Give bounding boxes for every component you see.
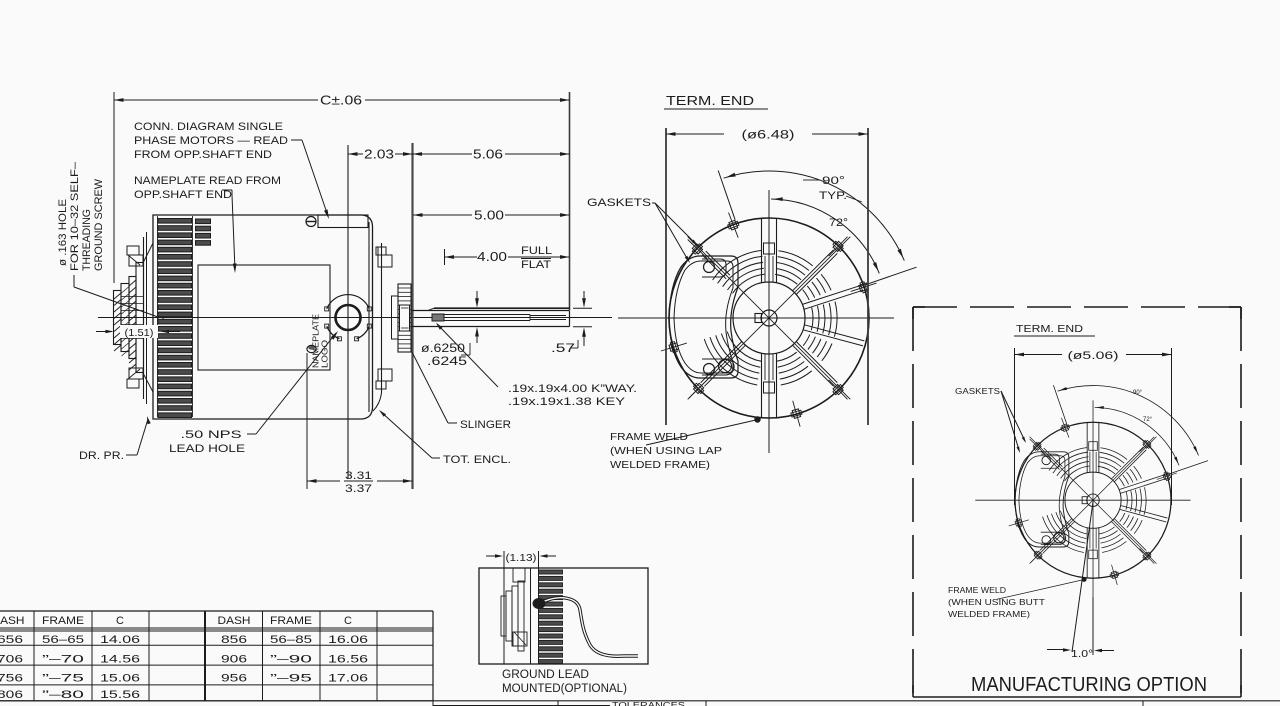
dimension 2.03 [348,153,363,155]
.57 arrows [583,291,585,303]
lead hole circle (.50 NPS) [336,305,361,330]
svg-text:NAMEPLATE READ FROM: NAMEPLATE READ FROM [134,175,281,187]
dia .6250 arrows [476,291,478,303]
3.31 dim left extension [306,353,308,489]
bell curve bottom [373,393,382,411]
svg-text:(ø6.48): (ø6.48) [742,130,795,142]
slinger disc [398,284,411,352]
svg-text:FRAME WELD: FRAME WELD [948,585,1006,595]
mini motor fins [539,570,563,574]
svg-text:ø .163 HOLE: ø .163 HOLE [57,199,69,266]
svg-text:56–65: 56–65 [42,634,84,646]
svg-text:FRAME: FRAME [42,615,84,627]
90 deg dimension arc [724,171,905,261]
svg-text:.19x.19x4.00 K”WAY.: .19x.19x4.00 K”WAY. [508,383,637,395]
rear bell step [381,243,383,393]
3.31/3.37 dimension [307,480,340,482]
svg-text:17.06: 17.06 [328,673,368,685]
(1.51) dimension [120,325,158,338]
svg-text:90°: 90° [822,175,845,187]
body right edge double line [368,222,370,412]
conn box extension line [347,145,349,479]
left bell cone [144,243,154,262]
svg-text:.50 NPS: .50 NPS [181,429,242,441]
svg-text:WELDED FRAME): WELDED FRAME) [610,459,710,471]
svg-text:FRAME WELD: FRAME WELD [610,431,688,443]
svg-text:4.00: 4.00 [477,250,507,264]
svg-text:C±.06: C±.06 [320,94,362,108]
svg-text:5.00: 5.00 [474,209,504,223]
radial extension lines [718,171,735,220]
svg-text:”–95: ”–95 [270,673,312,685]
svg-text:TOT. ENCL.: TOT. ENCL. [443,454,511,466]
slinger hub [392,296,399,339]
svg-text:CONN. DIAGRAM SINGLE: CONN. DIAGRAM SINGLE [134,121,283,133]
dimension 5.06 [413,153,473,155]
conn diagram leader [291,139,302,141]
svg-text:DASH: DASH [218,615,251,627]
svg-text:FLAT: FLAT [521,259,551,271]
dashed box corner stubs [913,306,925,308]
svg-text:TYP.: TYP. [819,190,847,202]
svg-text:C: C [116,615,124,627]
terminal channel top [761,219,763,283]
scaled term end geometry [975,385,1208,605]
gasket clip tabs [727,220,740,231]
motor body outline [153,215,373,419]
svg-text:(WHEN USING LAP: (WHEN USING LAP [610,445,722,457]
svg-text:GASKETS: GASKETS [587,197,651,209]
svg-text:856: 856 [221,634,247,646]
frame weld point and leader [754,416,760,422]
vertical centerline [768,190,770,453]
lead hole broken ring [327,295,370,309]
svg-text:14.06: 14.06 [100,634,140,646]
svg-text:(1.13): (1.13) [506,552,537,564]
bell clip bottom [376,381,386,389]
svg-text:TERM. END: TERM. END [666,94,754,108]
svg-text:GASKETS: GASKETS [955,386,1000,396]
shaft center circle [761,310,777,326]
horizontal centerline [618,317,894,319]
svg-text:72°: 72° [1143,417,1153,423]
1.0 deg dimension [1092,597,1094,655]
svg-text:15.06: 15.06 [100,673,140,685]
svg-text:”–90: ”–90 [270,654,312,666]
ground lead box [479,568,648,664]
dia 5.06 dimension line [1015,354,1063,356]
svg-text:TERM. END: TERM. END [1016,323,1083,335]
svg-text:”–80: ”–80 [42,689,84,701]
hub clips bottom [127,379,139,388]
dash/frame tables [0,610,433,612]
svg-text:THREADING: THREADING [81,209,93,271]
motor face extension line [411,143,413,489]
diagonal centerlines [688,237,851,400]
keyway leader [437,324,498,387]
svg-text:FROM OPP.SHAFT END: FROM OPP.SHAFT END [134,149,272,161]
shaft tip extension line [569,92,571,310]
ground lead wire [545,598,638,656]
shaft [411,310,570,312]
svg-text:706: 706 [0,654,23,666]
svg-text:MOUNTED(OPTIONAL): MOUNTED(OPTIONAL) [502,683,627,695]
drive end hub stack [114,291,122,345]
gasket outline [669,256,738,378]
keyway on shaft [432,314,444,321]
drain hole bottom [307,345,316,352]
concentric rib arcs [803,290,810,300]
dia 6.48 dimension [665,128,667,425]
svg-text:(WHEN USING BUTT: (WHEN USING BUTT [948,597,1046,607]
conduit box screw [306,217,316,227]
svg-text:3.31: 3.31 [345,470,372,482]
shaft flat line [434,307,570,309]
dimension 4.00 FULL FLAT [444,249,446,265]
hub plate lines [121,296,144,298]
svg-text:5.06: 5.06 [473,148,503,162]
svg-text:SLINGER: SLINGER [460,419,511,431]
lead hole leader [247,433,256,435]
nameplate leader [222,189,232,191]
terminal channel bottom [761,353,763,417]
ground lead grommet [533,598,546,609]
svg-text:GROUND SCREW: GROUND SCREW [93,178,105,271]
svg-text:90°: 90° [1133,390,1143,396]
svg-text:956: 956 [221,673,247,685]
svg-text:WELDED FRAME): WELDED FRAME) [948,609,1030,619]
radial rib spokes [793,250,834,291]
dimension C±.06 [114,99,318,101]
svg-text:”–70: ”–70 [42,654,84,666]
manufacturing option dashed border [913,306,1241,308]
svg-text:.19x.19x1.38 KEY: .19x.19x1.38 KEY [508,396,626,408]
gasket bolt pads [704,262,715,273]
svg-text:806: 806 [0,689,23,701]
svg-text:DR. PR.: DR. PR. [79,450,124,462]
svg-text:PHASE MOTORS — READ: PHASE MOTORS — READ [134,135,288,147]
svg-text:.57: .57 [551,343,575,355]
svg-text:FULL: FULL [521,245,552,257]
side view: main horizontal centerline [98,317,612,319]
svg-text:15.56: 15.56 [100,689,140,701]
svg-text:656: 656 [0,634,23,646]
svg-text:(1.51): (1.51) [125,327,154,339]
svg-text:14.56: 14.56 [100,654,140,666]
svg-text:.6245: .6245 [427,356,467,368]
svg-text:FOR 10–32 SELF–: FOR 10–32 SELF– [69,161,81,271]
fin band borders [157,216,159,417]
svg-text:56–85: 56–85 [270,634,312,646]
72 deg dimension arc [771,199,879,273]
svg-text:72°: 72° [829,217,848,229]
svg-text:1.0°: 1.0° [1071,648,1093,660]
dia 5.06 extension lines [1014,348,1016,505]
svg-text:ø.6250: ø.6250 [421,343,465,355]
svg-text:906: 906 [221,654,247,666]
svg-text:GROUND LEAD: GROUND LEAD [502,669,589,681]
term-end motor face circle [669,218,869,418]
hub boss circle [733,282,805,354]
svg-text:3.37: 3.37 [345,483,372,495]
svg-text:16.56: 16.56 [328,654,368,666]
svg-text:16.06: 16.06 [328,634,368,646]
bell clip top [376,247,386,255]
svg-text:LEAD HOLE: LEAD HOLE [169,443,245,455]
svg-text:C: C [344,615,352,627]
left bell rim [143,237,145,399]
hub clips top [127,246,139,255]
svg-text:2.03: 2.03 [364,148,394,162]
dimension 5.00 [413,214,472,216]
svg-text:DASH: DASH [0,615,25,627]
mini motor hub [503,568,505,664]
svg-text:”–75: ”–75 [42,673,84,685]
conduit box on top [318,215,368,228]
ground screw leader [73,275,75,287]
svg-text:OPP.SHAFT END: OPP.SHAFT END [134,189,232,201]
cooling fin louvres [158,219,192,224]
svg-text:(ø5.06): (ø5.06) [1068,350,1119,362]
(1.13) dimension [503,551,505,568]
svg-text:TOLERANCES: TOLERANCES [612,701,685,706]
nameplate rectangle [198,265,330,370]
svg-text:FRAME: FRAME [270,615,312,627]
C dim left extension line [113,92,115,283]
svg-text:MANUFACTURING OPTION: MANUFACTURING OPTION [971,674,1207,696]
hub hatching [114,293,121,299]
bottom border strip [0,700,1280,702]
svg-text:756: 756 [0,673,23,685]
TERM END view geometry [618,171,917,454]
top corner extra fins [196,219,211,224]
